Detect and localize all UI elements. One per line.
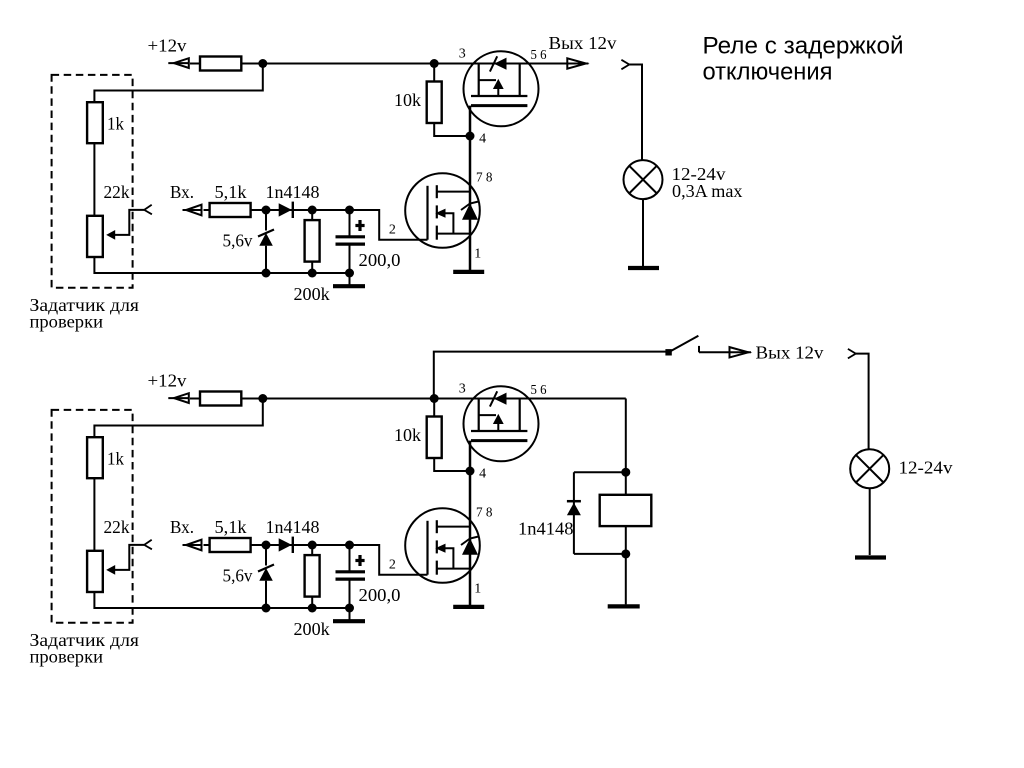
wire 10k top lead xyxy=(433,64,435,82)
potentiometer R3.1 22k xyxy=(87,216,103,257)
zener cathode bar (slanted) xyxy=(258,565,274,572)
VT1 right bar xyxy=(519,64,521,97)
switch pivot nub xyxy=(665,349,671,355)
capacitor C1.1 top plate xyxy=(336,235,366,238)
junction dot +12v/divider xyxy=(258,59,267,68)
resistor R1.1 +12v series box xyxy=(200,57,241,71)
lamp L2 12-24v xyxy=(850,449,889,488)
ground under lamp L2 xyxy=(855,555,886,559)
svg-text:0,3A max: 0,3A max xyxy=(672,181,743,201)
transistor VT2.1 body circle xyxy=(405,173,480,248)
VT2 body diode triangle xyxy=(462,538,478,555)
wire 200k bottom lead xyxy=(311,262,313,273)
wire drain column (VT1 source bar to VT2 and ground) xyxy=(469,106,472,271)
diode VD1 cathode bar xyxy=(292,537,294,553)
svg-text:10k: 10k xyxy=(394,90,421,110)
node 4 junction dot xyxy=(466,132,475,141)
wire 10k bottom lead to node 4 xyxy=(434,458,470,471)
wire divider middle (1k to 22k) xyxy=(93,478,95,550)
ground under capacitor xyxy=(333,284,365,288)
junction dot bottom/200k xyxy=(308,604,317,613)
dashed box (test divider) xyxy=(52,75,133,288)
transistor VT2.2 body circle xyxy=(405,508,480,583)
VT2 source lead xyxy=(437,233,470,235)
wire 200k top lead xyxy=(311,210,313,220)
svg-text:Реле с задержкой: Реле с задержкой xyxy=(703,33,904,60)
svg-text:22k: 22k xyxy=(104,182,130,202)
resistor R6.1 10k xyxy=(427,82,442,124)
junction dot bottom/200k xyxy=(308,269,317,278)
wire capacitor bottom lead xyxy=(349,580,351,621)
svg-text:12-24v: 12-24v xyxy=(899,458,953,478)
wire 200k bottom lead xyxy=(311,597,313,608)
junction dot +12v/10k xyxy=(430,394,439,403)
svg-text:1n4148: 1n4148 xyxy=(518,518,574,538)
svg-text:5 6: 5 6 xyxy=(531,383,547,398)
junction dot input/capacitor xyxy=(345,206,354,215)
potentiometer wiper arrow xyxy=(106,565,115,575)
svg-text:Вх.: Вх. xyxy=(170,517,194,537)
VT1 mid line xyxy=(479,79,496,81)
wire drain column (VT1 source bar to VT2 and ground) xyxy=(469,441,472,606)
junction dot input/200k xyxy=(308,541,317,550)
svg-text:2: 2 xyxy=(389,223,396,238)
VT2 substrate arrow xyxy=(435,209,445,218)
VT1 source bar upper xyxy=(471,430,527,432)
VT2 channel dashes xyxy=(436,185,438,198)
svg-text:5 6: 5 6 xyxy=(531,48,547,63)
wire 10k bottom lead to node 4 xyxy=(434,123,470,136)
svg-text:Вх.: Вх. xyxy=(170,182,194,202)
resistor R6.2 10k xyxy=(427,417,442,459)
wire lamp L1 to ground xyxy=(642,199,644,266)
svg-text:1k: 1k xyxy=(107,114,124,134)
flyback diode VD3 branch bottom wire xyxy=(574,553,626,555)
junction dot input/capacitor xyxy=(345,541,354,550)
svg-text:+12v: +12v xyxy=(148,36,187,56)
flyback diode VD3 branch top wire xyxy=(574,471,626,473)
wire divider bottom to ground rail xyxy=(94,591,349,608)
zener cathode bar (slanted) xyxy=(258,230,274,237)
svg-text:3: 3 xyxy=(459,46,466,61)
output arrow Vyh 12v (open, pointing right) xyxy=(567,63,588,65)
zener VD2.2 5,6v triangle xyxy=(259,568,273,581)
lamp L1 12-24v xyxy=(624,160,663,199)
junction dot input/200k xyxy=(308,206,317,215)
node 4 junction dot xyxy=(466,467,475,476)
resistor R4.1 5,1k xyxy=(210,203,251,217)
VT1 source bar lower xyxy=(471,104,527,107)
svg-text:1k: 1k xyxy=(107,449,124,469)
svg-text:22k: 22k xyxy=(104,517,130,537)
svg-text:+12v: +12v xyxy=(148,371,187,391)
transistor VT1.2 inline diode xyxy=(494,393,507,405)
VT1 source bar upper xyxy=(471,95,527,97)
diode VD1 cathode bar xyxy=(292,202,294,218)
potentiometer wiper open end fork xyxy=(144,540,152,550)
svg-text:7 8: 7 8 xyxy=(476,505,493,520)
svg-text:4: 4 xyxy=(479,132,486,147)
wire zener branch top xyxy=(265,545,267,566)
VT1 left bar xyxy=(478,64,480,97)
svg-text:2: 2 xyxy=(389,558,396,573)
flyback diode VD3 1n4148 triangle xyxy=(567,503,581,516)
wire from +12v node down-left to divider xyxy=(94,64,262,103)
wire divider bottom to ground rail xyxy=(94,256,349,273)
wire zener branch bottom xyxy=(265,581,267,608)
VT2 drain lead xyxy=(437,191,470,193)
capacitor bottom plate xyxy=(336,243,366,246)
dashed box (test divider) xyxy=(52,410,133,623)
wire zener branch top xyxy=(265,210,267,231)
zener VD2.1 5,6v triangle xyxy=(259,233,273,246)
svg-text:1: 1 xyxy=(474,247,481,262)
ground under lamp L1 xyxy=(628,266,659,270)
svg-text:3: 3 xyxy=(459,381,466,396)
wire lamp L2 to ground xyxy=(869,488,871,555)
wire relay to ground xyxy=(625,554,627,605)
diode VD1.2 1n4148 triangle xyxy=(279,538,292,551)
relay K1 coil box xyxy=(600,495,652,526)
junction dot input/zener xyxy=(262,541,271,550)
arrow +12v (open, pointing left) xyxy=(168,397,189,399)
ground under capacitor xyxy=(333,619,365,623)
VT2 channel dashes xyxy=(436,520,438,533)
wire fork to lamp L1 xyxy=(629,65,642,161)
flyback diode VD3 cathode bar xyxy=(567,500,581,503)
wire fork to lamp L2 xyxy=(856,354,869,450)
resistor R5.1 200k xyxy=(305,220,320,262)
wire divider middle (1k to 22k) xyxy=(93,143,95,215)
wire relay top lead xyxy=(625,472,627,495)
wire 10k top lead xyxy=(433,399,435,417)
VT1 right bar xyxy=(519,399,521,432)
VT1 substrate arrow xyxy=(493,79,504,89)
transistor VT1.1 body circle xyxy=(464,51,539,126)
wire relay bottom lead xyxy=(625,526,627,554)
junction dot +12v/divider xyxy=(258,394,267,403)
VT1 substrate arrow xyxy=(493,414,504,424)
arrow Vx (open, pointing left) xyxy=(183,209,202,211)
svg-text:10k: 10k xyxy=(394,425,421,445)
wire capacitor top lead xyxy=(349,210,351,236)
ground under relay xyxy=(608,604,640,608)
VT2 substrate arrow xyxy=(435,544,445,553)
svg-text:Вых 12v: Вых 12v xyxy=(756,342,824,362)
diode VD1.1 1n4148 triangle xyxy=(279,203,292,216)
ground under VT2 xyxy=(453,605,484,609)
svg-text:5,6v: 5,6v xyxy=(223,231,253,251)
ground under VT2 xyxy=(453,270,484,274)
svg-text:7 8: 7 8 xyxy=(476,170,493,185)
svg-text:1n4148: 1n4148 xyxy=(266,182,320,202)
junction dot +12v/10k xyxy=(430,59,439,68)
junction dot bottom/zener xyxy=(262,269,271,278)
junction dot input/zener xyxy=(262,206,271,215)
junction dot bottom/capacitor xyxy=(345,269,354,278)
svg-text:5,1k: 5,1k xyxy=(215,182,247,202)
wire from +12v node down-left to divider xyxy=(94,399,262,438)
wire VT1.2 output down to relay xyxy=(625,399,627,473)
svg-text:5,6v: 5,6v xyxy=(223,566,253,586)
svg-text:4: 4 xyxy=(479,467,486,482)
VT2 body diode cathode bar (bent) xyxy=(461,202,479,211)
wire 200k top lead xyxy=(311,545,313,555)
open fork at lamp feed (bottom) xyxy=(848,349,856,359)
svg-text:Вых 12v: Вых 12v xyxy=(549,33,617,53)
VT2 source lead xyxy=(437,568,470,570)
transistor VT1.1 inline diode xyxy=(494,58,507,70)
svg-text:200k: 200k xyxy=(294,619,330,639)
capacitor polarity + xyxy=(355,559,364,562)
junction dot bottom/capacitor xyxy=(345,604,354,613)
VT1 left bar xyxy=(478,399,480,432)
output arrow Vyh 12v bottom (open, pointing right) xyxy=(730,351,752,353)
potentiometer wiper arrow xyxy=(106,230,115,240)
VT2 body diode triangle xyxy=(462,203,478,220)
VT1 source bar lower xyxy=(471,439,527,442)
transistor VT2.1 gate bar xyxy=(426,186,428,240)
wire input rail (Vx to gate branch) xyxy=(204,210,428,240)
transistor VT1.2 body circle xyxy=(464,386,539,461)
wire input rail (Vx to gate branch) xyxy=(204,545,428,575)
junction dot bottom/zener xyxy=(262,604,271,613)
potentiometer wiper open end fork xyxy=(144,205,152,215)
svg-text:5,1k: 5,1k xyxy=(215,517,247,537)
wire capacitor top lead xyxy=(349,545,351,571)
capacitor bottom plate xyxy=(336,577,366,580)
junction dot relay top xyxy=(621,468,630,477)
transistor VT2.2 gate bar xyxy=(426,521,428,575)
resistor R2.1 1k xyxy=(87,102,103,143)
capacitor polarity + xyxy=(355,224,364,227)
wire +12v rail xyxy=(190,63,567,65)
capacitor C1.2 top plate xyxy=(336,570,366,573)
switch blade xyxy=(669,336,699,353)
svg-text:отключения: отключения xyxy=(703,59,833,86)
wire riser from +12v node to switch xyxy=(434,352,669,399)
potentiometer R3.2 22k xyxy=(87,551,103,592)
wire zener branch bottom xyxy=(265,246,267,273)
switch fixed contact xyxy=(698,346,700,352)
flyback diode VD3 branch vertical xyxy=(573,472,575,554)
open fork at lamp feed (top) xyxy=(621,60,629,70)
wire switch to output arrow xyxy=(699,351,730,353)
svg-text:200,0: 200,0 xyxy=(359,585,401,605)
arrow Vx (open, pointing left) xyxy=(183,544,202,546)
svg-text:200k: 200k xyxy=(294,284,330,304)
arrow +12v (open, pointing left) xyxy=(168,62,189,64)
junction dot relay bottom xyxy=(621,549,630,558)
resistor R4.2 5,1k xyxy=(210,538,251,552)
svg-text:проверки: проверки xyxy=(30,647,104,667)
svg-text:проверки: проверки xyxy=(30,312,104,332)
svg-text:1: 1 xyxy=(474,582,481,597)
VT1 mid line xyxy=(479,414,496,416)
svg-text:200,0: 200,0 xyxy=(359,250,401,270)
wire capacitor bottom lead xyxy=(349,245,351,286)
wire +12v rail xyxy=(190,398,626,400)
svg-text:1n4148: 1n4148 xyxy=(266,517,320,537)
resistor R1.2 +12v series box xyxy=(200,392,241,406)
resistor R5.2 200k xyxy=(305,555,320,597)
resistor R2.2 1k xyxy=(87,437,103,478)
VT2 drain lead xyxy=(437,526,470,528)
VT2 body diode cathode bar (bent) xyxy=(461,537,479,546)
